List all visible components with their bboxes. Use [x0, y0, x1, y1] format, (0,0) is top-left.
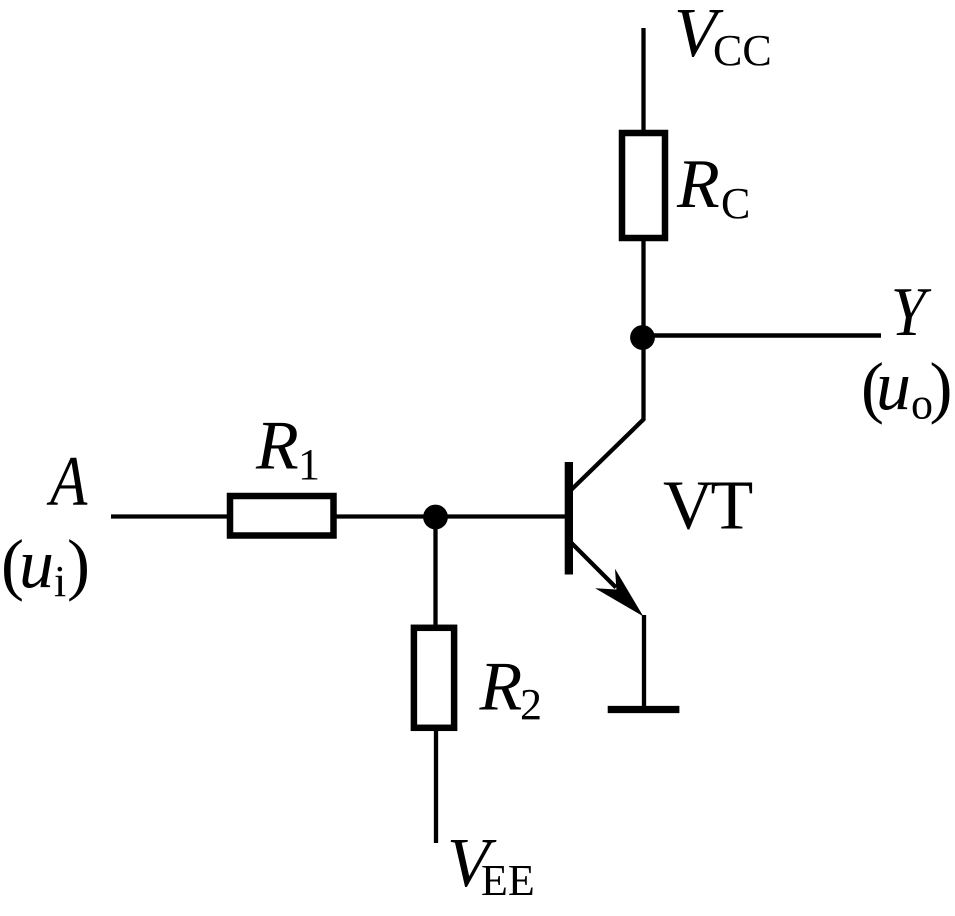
- resistor RC: [622, 133, 665, 238]
- resistor R2: [414, 628, 454, 728]
- svg-text:R: R: [255, 408, 299, 485]
- svg-text:u: u: [19, 526, 54, 603]
- svg-text:R: R: [479, 649, 523, 726]
- transistor VT emitter arrowhead: [595, 569, 643, 617]
- resistor R1: [230, 496, 334, 536]
- svg-text:u: u: [876, 348, 911, 425]
- label R1: [255, 408, 320, 490]
- wire R2 to VEE: [434, 727, 438, 843]
- wire output to Y: [642, 333, 881, 338]
- node Y junction dot: [630, 325, 655, 350]
- ground: [608, 706, 680, 713]
- svg-text:i: i: [54, 557, 66, 606]
- label RC: [676, 146, 750, 228]
- transistor VT collector lead (diagonal): [570, 419, 644, 491]
- svg-text:EE: EE: [481, 856, 535, 905]
- wire node Y to collector bend: [641, 336, 645, 421]
- svg-text:C: C: [721, 179, 750, 228]
- label VEE: [447, 825, 535, 905]
- wire RC to node Y: [641, 238, 645, 340]
- svg-text:R: R: [676, 146, 720, 223]
- svg-text:): ): [930, 349, 953, 425]
- svg-text:V: V: [663, 468, 714, 545]
- label (uo): [861, 348, 952, 429]
- label (ui): [1, 526, 90, 606]
- wire R1 to node B: [333, 514, 440, 518]
- node B junction dot: [423, 505, 448, 530]
- svg-text:CC: CC: [713, 26, 772, 75]
- wire node B to R2: [433, 517, 437, 627]
- wire node B to base: [435, 514, 566, 518]
- label VCC: [674, 0, 772, 75]
- svg-text:Y: Y: [891, 274, 932, 351]
- wire input A to R1: [111, 514, 230, 518]
- svg-text:T: T: [711, 468, 754, 545]
- wire emitter to ground: [642, 615, 646, 708]
- svg-text:1: 1: [298, 440, 320, 489]
- svg-text:): ): [67, 526, 90, 602]
- wire VCC lead (top vertical): [641, 28, 645, 133]
- label R2: [479, 649, 543, 730]
- svg-text:2: 2: [520, 680, 542, 729]
- transistor VT base bar: [565, 462, 573, 575]
- svg-text:A: A: [46, 442, 87, 520]
- transistor VT emitter lead (diagonal): [572, 543, 617, 588]
